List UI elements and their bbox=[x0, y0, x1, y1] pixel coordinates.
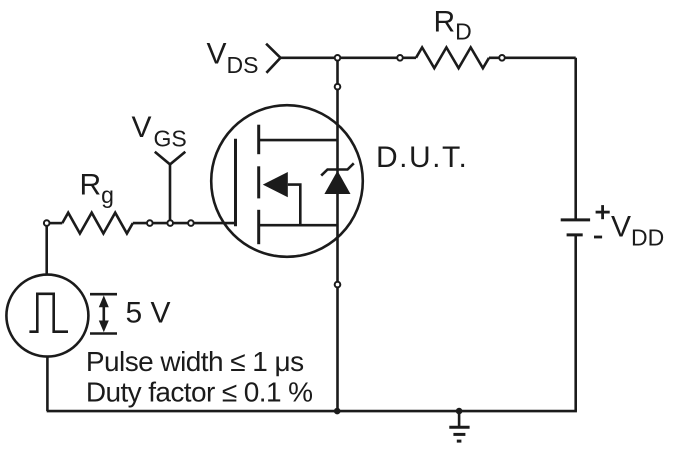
junction dot ground at bottom rail bbox=[456, 408, 463, 415]
pulse generator source bbox=[6, 275, 88, 357]
probe VGS fork and stem bbox=[155, 152, 186, 165]
MOSFET body diode bbox=[324, 171, 350, 194]
wire left branch down to pulse generator bbox=[45, 223, 48, 275]
MOSFET gate bar bbox=[234, 139, 237, 226]
node: VGS tap junction bbox=[167, 220, 173, 226]
svg-text:Duty factor ≤ 0.1 %: Duty factor ≤ 0.1 % bbox=[86, 377, 313, 408]
node: RD left terminal bbox=[397, 55, 403, 61]
wire gate row: left node to Rg bbox=[47, 222, 63, 225]
node: source open circle bbox=[335, 282, 341, 288]
resistor RD bbox=[416, 47, 489, 68]
battery minus sign bbox=[594, 236, 602, 239]
svg-text:D.U.T.: D.U.T. bbox=[376, 141, 468, 174]
junction dot source column at bottom rail bbox=[334, 408, 341, 415]
MOSFET D.U.T. body circle bbox=[211, 105, 363, 257]
node: Rg right terminal bbox=[147, 220, 153, 226]
wire top rail from VDS terminal to RD bbox=[281, 56, 417, 59]
node: Rg left terminal bbox=[44, 220, 50, 226]
wire pulse generator to bottom rail bbox=[46, 357, 49, 412]
ground bbox=[449, 411, 469, 441]
resistor Rg bbox=[62, 213, 132, 234]
wire drain-source column (VDS node down through D.U.T. to bottom rail) bbox=[336, 58, 339, 411]
node: top junction VDS bbox=[335, 55, 341, 61]
svg-text:Pulse width ≤ 1 μs: Pulse width ≤ 1 μs bbox=[86, 346, 304, 377]
node: RD right terminal bbox=[499, 55, 505, 61]
node: gate terminal bbox=[188, 220, 194, 226]
node: drain open circle bbox=[335, 84, 341, 90]
terminal VDS arrow bbox=[266, 44, 280, 73]
battery VDD bbox=[561, 220, 590, 235]
MOSFET source bar bbox=[259, 224, 338, 227]
MOSFET body connection with arrow bbox=[288, 185, 301, 226]
wire right branch down to battery plus plate bbox=[574, 58, 577, 220]
wire battery minus to bottom rail bbox=[574, 235, 577, 411]
MOSFET drain bar bbox=[259, 139, 338, 142]
MOSFET channel dashed segments bbox=[257, 125, 260, 245]
wire Rg to MOSFET gate bbox=[133, 222, 236, 225]
wire bottom rail bbox=[47, 410, 577, 413]
battery plus sign bbox=[596, 205, 610, 219]
wire RD to top-right corner bbox=[489, 56, 576, 59]
5 V amplitude dimension arrow bbox=[90, 294, 117, 333]
svg-text:5 V: 5 V bbox=[126, 297, 171, 330]
